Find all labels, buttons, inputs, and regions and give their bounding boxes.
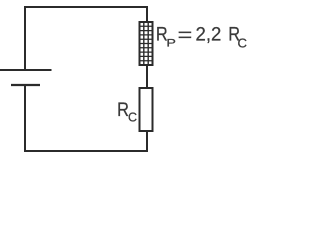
svg-text:2,2: 2,2 [196, 23, 222, 44]
wire: between R_P and R_C [146, 65, 148, 88]
svg-text:C: C [238, 36, 247, 51]
label: R_P = 2,2 R_C [156, 23, 247, 50]
battery B1 short plate (negative terminal) [11, 84, 40, 86]
battery B1 long plate (positive terminal) [0, 69, 52, 71]
wire: left vertical lower + bottom horizontal + right vertical stub from R_C [25, 85, 147, 151]
svg-text:P: P [166, 36, 176, 49]
svg-text:=: = [178, 24, 193, 45]
resistor R_P (hatched/grid body) [140, 22, 153, 65]
svg-text:C: C [128, 110, 137, 124]
label: R_C [117, 99, 137, 125]
wire: left vertical upper + top horizontal + right vertical stub to R_P [25, 7, 147, 70]
resistor R_C (plain body) [140, 88, 153, 131]
